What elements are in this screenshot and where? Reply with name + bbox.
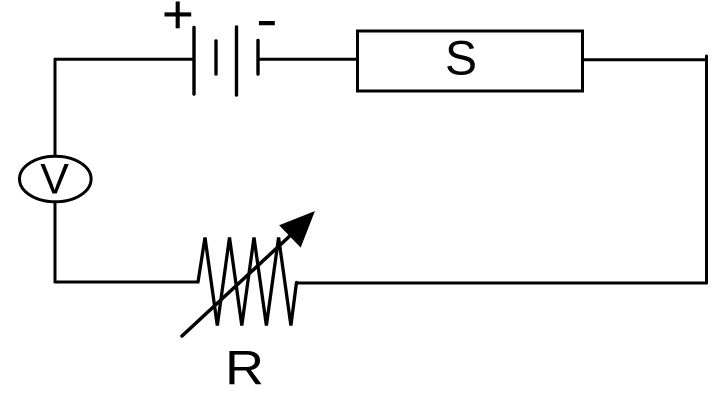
svg-text:V: V — [40, 156, 69, 204]
svg-text:S: S — [445, 33, 477, 86]
svg-text:R: R — [225, 343, 264, 396]
